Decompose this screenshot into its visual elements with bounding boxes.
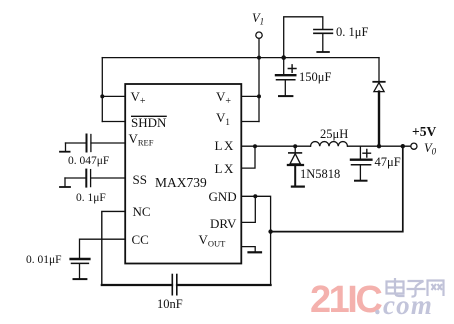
svg-text:LX: LX [215, 138, 235, 153]
svg-text:MAX739: MAX739 [155, 175, 207, 190]
svg-text:0. 01μF: 0. 01μF [26, 254, 62, 266]
svg-text:21IC: 21IC [310, 279, 382, 321]
svg-text:10nF: 10nF [157, 297, 183, 311]
svg-text:+5V: +5V [412, 124, 436, 139]
svg-text:0. 1μF: 0. 1μF [76, 192, 106, 204]
svg-text:SS: SS [133, 172, 147, 187]
svg-text:NC: NC [133, 204, 151, 219]
svg-text:CC: CC [132, 232, 149, 247]
svg-text:0. 047μF: 0. 047μF [68, 155, 109, 167]
svg-text:GND: GND [209, 189, 237, 204]
svg-text:1N5818: 1N5818 [300, 167, 340, 181]
svg-text:.com: .com [375, 290, 433, 320]
svg-text:SHDN: SHDN [131, 115, 167, 130]
svg-text:LX: LX [215, 161, 235, 176]
svg-text:0. 1μF: 0. 1μF [336, 25, 368, 39]
svg-text:DRV: DRV [210, 216, 237, 231]
svg-text:150μF: 150μF [299, 70, 331, 84]
svg-text:25μH: 25μH [320, 127, 348, 141]
svg-text:47μF: 47μF [375, 155, 401, 169]
